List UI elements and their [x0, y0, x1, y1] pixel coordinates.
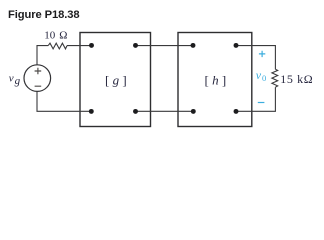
node: h top-right terminal — [234, 43, 239, 48]
node: g bottom-left terminal — [89, 109, 94, 114]
node: h top-left terminal — [191, 43, 196, 48]
svg-text:v: v — [256, 68, 262, 82]
vo minus mark — [258, 102, 265, 104]
svg-text:0: 0 — [262, 73, 266, 83]
node: g top-right terminal — [133, 43, 138, 48]
two-port box [g] — [80, 33, 151, 127]
svg-text:15 kΩ: 15 kΩ — [280, 72, 313, 86]
wire: g top-right to h top-left — [136, 45, 194, 47]
svg-text:v: v — [9, 72, 14, 84]
label vo — [256, 68, 266, 83]
node: h bottom-left terminal — [191, 109, 196, 114]
title Figure P18.38 — [8, 9, 79, 21]
node: h bottom-right terminal — [234, 109, 239, 114]
svg-text:Figure P18.38: Figure P18.38 — [8, 9, 79, 21]
wire: g bottom-left to source bottom — [37, 91, 91, 111]
resistor R 10ohm zigzag — [48, 43, 67, 49]
wire: source top to resistor — [37, 46, 48, 65]
wire: h bottom-left to g bottom-right — [136, 110, 194, 112]
wire: h top-right to load corner, down to resistor — [236, 46, 275, 70]
two-port box [h] — [178, 33, 252, 127]
node: g top-left terminal — [89, 43, 94, 48]
node: g bottom-right terminal — [133, 109, 138, 114]
vo plus mark — [259, 51, 265, 57]
svg-text:[ g ]: [ g ] — [105, 72, 127, 87]
label [ g ] — [105, 72, 127, 87]
wire: resistor to g box top-left terminal — [67, 45, 92, 47]
svg-text:10: 10 — [44, 30, 56, 42]
label 10 ohm — [44, 30, 67, 42]
svg-text:[ h ]: [ h ] — [205, 72, 227, 87]
label vg — [9, 72, 21, 87]
svg-text:g: g — [15, 75, 21, 87]
label [ h ] — [205, 72, 227, 87]
wire: resistor bottom to h bottom-right terminal — [236, 87, 275, 111]
svg-text:Ω: Ω — [59, 30, 67, 42]
resistor RL 15k zigzag (vertical) — [272, 69, 278, 87]
label 15 kohm — [280, 72, 313, 86]
voltage source vg — [24, 65, 51, 92]
